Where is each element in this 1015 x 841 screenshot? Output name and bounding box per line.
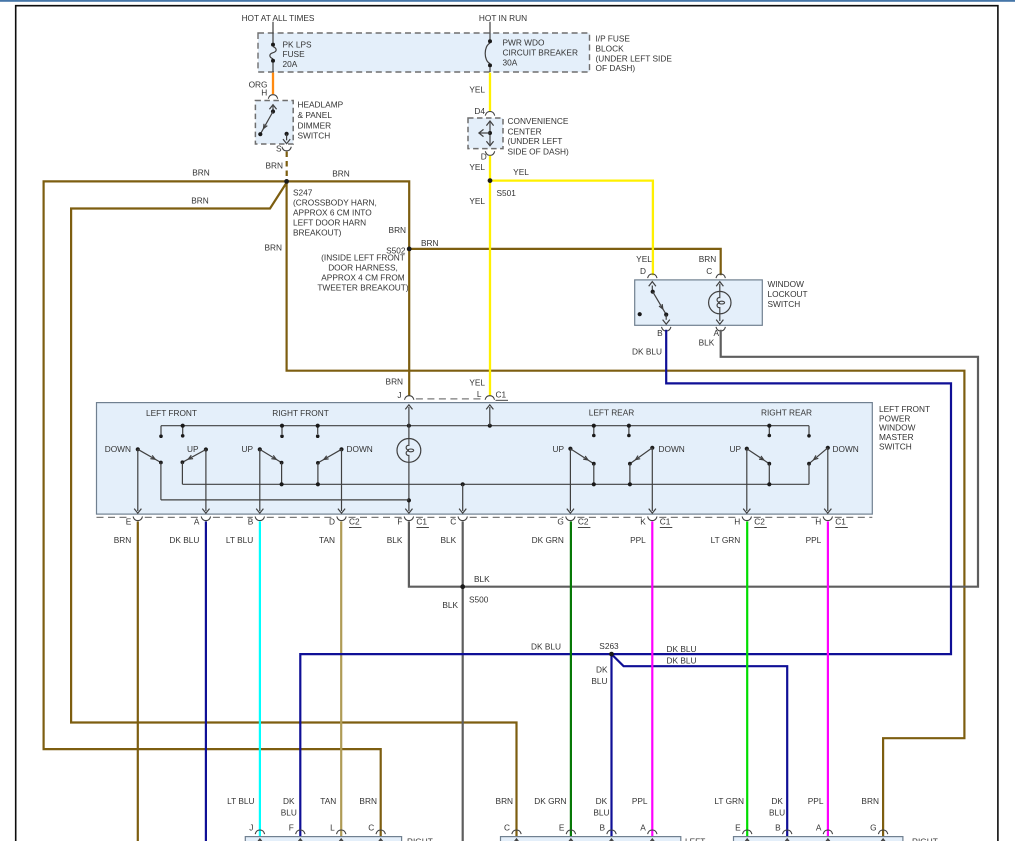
svg-text:BRN: BRN: [389, 225, 407, 235]
connector pin H arc: [268, 95, 277, 99]
connector pin D arc: [485, 151, 494, 155]
wire BRN S502 to master switch pin J: [408, 249, 410, 396]
svg-text:RIGHT FRONT: RIGHT FRONT: [272, 408, 329, 418]
headlamp switch contacts: [272, 106, 274, 112]
svg-text:H: H: [734, 517, 740, 527]
svg-text:DOOR HARNESS,: DOOR HARNESS,: [328, 263, 398, 273]
svg-text:L: L: [477, 389, 482, 399]
svg-text:K: K: [640, 517, 646, 527]
svg-text:B: B: [248, 517, 254, 527]
svg-text:UP: UP: [187, 444, 199, 454]
svg-text:D4: D4: [474, 106, 485, 116]
svg-text:HEADLAMP: HEADLAMP: [298, 100, 344, 110]
svg-text:S247: S247: [293, 187, 313, 197]
svg-text:YEL: YEL: [469, 196, 485, 206]
lockout switch contacts: [651, 286, 653, 292]
svg-text:PWR WDO: PWR WDO: [503, 38, 545, 48]
svg-text:B: B: [599, 823, 605, 833]
svg-text:C: C: [450, 517, 456, 527]
left rear DOWN switch: [650, 446, 654, 450]
wire DK BLU S263 to left rear door switch pin B: [610, 654, 612, 837]
connector dashed line below master switch: [97, 516, 131, 518]
svg-text:DOWN: DOWN: [347, 444, 373, 454]
svg-text:DK GRN: DK GRN: [534, 796, 566, 806]
svg-text:DK: DK: [771, 796, 783, 806]
wire BRN S502 to lockout switch pin C: [409, 249, 721, 275]
connector pin B arc: [662, 327, 671, 331]
wire DK BLU pin A to bottom: [205, 521, 207, 841]
svg-text:UP: UP: [241, 444, 253, 454]
svg-text:F: F: [397, 517, 402, 527]
left rear door window switch box: [501, 837, 681, 841]
svg-text:BLK: BLK: [441, 535, 457, 545]
svg-text:BLU: BLU: [281, 808, 297, 818]
svg-text:E: E: [126, 517, 132, 527]
wire TAN pin D to right front door switch pin L: [340, 521, 342, 836]
I/P fuse block box: [258, 33, 590, 72]
svg-text:BRN: BRN: [264, 243, 282, 253]
svg-text:S: S: [276, 143, 282, 153]
svg-text:C: C: [706, 266, 712, 276]
svg-text:DOWN: DOWN: [659, 444, 685, 454]
pin J arc: [405, 396, 414, 400]
svg-text:G: G: [557, 517, 563, 527]
svg-text:G: G: [870, 823, 876, 833]
svg-text:A: A: [713, 328, 719, 338]
master switch lamp: [408, 426, 410, 439]
lamp return bus: [160, 463, 162, 500]
svg-text:BRN: BRN: [421, 238, 439, 248]
svg-text:D: D: [329, 517, 335, 527]
svg-text:H: H: [815, 517, 821, 527]
svg-text:UP: UP: [729, 444, 741, 454]
svg-text:LEFT: LEFT: [685, 836, 705, 841]
svg-text:D: D: [481, 152, 487, 162]
svg-text:C1: C1: [416, 517, 427, 527]
svg-text:20A: 20A: [283, 59, 298, 69]
svg-text:DK: DK: [596, 796, 608, 806]
svg-text:BLK: BLK: [387, 535, 403, 545]
headlamp and panel dimmer switch box: [255, 101, 293, 145]
wire BRN S247 lower-left branch to left rear door switch pin C: [71, 183, 516, 837]
svg-text:BLK: BLK: [442, 600, 458, 610]
svg-text:PPL: PPL: [632, 796, 648, 806]
wire BLK lockout pin A to S500: [464, 330, 978, 587]
svg-text:CIRCUIT BREAKER: CIRCUIT BREAKER: [503, 48, 578, 58]
wire LT GRN pin H to right rear door switch pin E: [746, 521, 748, 836]
svg-text:DOWN: DOWN: [833, 444, 859, 454]
wire BRN S247 to S502: [287, 181, 410, 249]
connector pin S arc: [282, 147, 291, 151]
svg-text:BRN: BRN: [265, 160, 283, 170]
svg-text:PPL: PPL: [806, 535, 822, 545]
right front DOWN switch: [339, 447, 343, 451]
svg-text:TWEETER BREAKOUT): TWEETER BREAKOUT): [317, 283, 409, 293]
splice S502 dot: [407, 247, 412, 252]
svg-text:C: C: [504, 823, 510, 833]
svg-text:C1: C1: [496, 390, 507, 400]
wire stub to circuit breaker: [489, 22, 491, 33]
svg-text:BLU: BLU: [593, 808, 609, 818]
svg-text:YEL: YEL: [469, 162, 485, 172]
svg-text:LEFT FRONT: LEFT FRONT: [146, 408, 197, 418]
wire BRN pin E to bottom: [137, 521, 139, 841]
wire DK BLU lockout pin B to S263 to front door switch pin F: [300, 330, 951, 837]
svg-text:B: B: [775, 823, 781, 833]
svg-text:SWITCH: SWITCH: [879, 442, 912, 452]
svg-text:C2: C2: [754, 517, 765, 527]
svg-text:DIMMER: DIMMER: [298, 120, 332, 130]
svg-text:HOT AT ALL TIMES: HOT AT ALL TIMES: [242, 13, 315, 23]
svg-text:YEL: YEL: [636, 254, 652, 264]
svg-text:(UNDER LEFT: (UNDER LEFT: [508, 136, 563, 146]
svg-text:TAN: TAN: [319, 535, 335, 545]
convenience center internal: [489, 122, 491, 144]
right rear door window switch box: [734, 837, 903, 841]
connector pin C arc: [716, 274, 725, 278]
wire LT BLU pin B to right front door switch pin J: [259, 521, 261, 836]
svg-text:PPL: PPL: [630, 535, 646, 545]
pin C drop: [462, 484, 464, 511]
svg-text:F: F: [289, 823, 294, 833]
wire YEL convenience center to S501 and master switch pin L: [489, 156, 491, 396]
svg-text:DK BLU: DK BLU: [667, 656, 697, 666]
svg-text:BRN: BRN: [386, 376, 404, 386]
svg-text:BRN: BRN: [191, 196, 209, 206]
svg-text:30A: 30A: [503, 57, 518, 67]
splice S500: [460, 584, 465, 589]
pin J riser arrow: [408, 407, 410, 426]
svg-text:CENTER: CENTER: [508, 126, 542, 136]
svg-text:A: A: [640, 823, 646, 833]
svg-text:DK BLU: DK BLU: [531, 641, 561, 651]
svg-text:BRN: BRN: [332, 168, 350, 178]
svg-text:UP: UP: [552, 444, 564, 454]
svg-text:DOWN: DOWN: [105, 444, 131, 454]
fuse PK LPS 20A: [272, 33, 274, 43]
svg-text:DK GRN: DK GRN: [532, 535, 564, 545]
left rear UP switch: [568, 447, 572, 451]
lockout indicator lamp: [719, 284, 721, 292]
svg-text:H: H: [261, 88, 267, 98]
pin L riser arrow: [489, 407, 491, 426]
svg-text:FUSE: FUSE: [283, 49, 306, 59]
svg-text:APPROX 4 CM FROM: APPROX 4 CM FROM: [321, 273, 405, 283]
svg-text:DK: DK: [283, 796, 295, 806]
svg-text:BLK: BLK: [699, 338, 715, 348]
left front DOWN switch: [136, 447, 140, 451]
svg-text:YEL: YEL: [469, 377, 485, 387]
connector pin A arc: [716, 327, 725, 331]
svg-text:L: L: [330, 823, 335, 833]
svg-text:S500: S500: [469, 594, 489, 604]
svg-text:DK BLU: DK BLU: [632, 347, 662, 357]
svg-text:D: D: [640, 266, 646, 276]
svg-text:E: E: [559, 823, 565, 833]
wire BLK pin F to S500: [409, 521, 462, 586]
svg-text:S501: S501: [497, 188, 517, 198]
svg-text:A: A: [816, 823, 822, 833]
svg-text:I/P FUSE: I/P FUSE: [596, 34, 631, 44]
wire BLK pin C to S500 to ground: [462, 521, 464, 841]
feed contact stubs: [182, 426, 184, 434]
svg-text:RIGHT REAR: RIGHT REAR: [761, 408, 812, 418]
circuit breaker PWR WDO 30A: [489, 33, 491, 40]
svg-text:LT BLU: LT BLU: [226, 535, 253, 545]
convenience center box: [468, 118, 503, 149]
svg-text:LT GRN: LT GRN: [714, 796, 744, 806]
svg-text:BRN: BRN: [699, 254, 717, 264]
right rear DOWN switch: [826, 446, 830, 450]
svg-text:A: A: [194, 517, 200, 527]
svg-text:SWITCH: SWITCH: [298, 131, 331, 141]
svg-text:(CROSSBODY HARN,: (CROSSBODY HARN,: [293, 197, 377, 207]
svg-text:DK BLU: DK BLU: [667, 644, 697, 654]
window lockout switch box: [635, 280, 763, 325]
svg-text:BREAKOUT): BREAKOUT): [293, 227, 342, 237]
svg-text:BRN: BRN: [114, 535, 132, 545]
wire YEL S501 to lockout switch pin D: [490, 181, 653, 276]
svg-text:SWITCH: SWITCH: [768, 299, 801, 309]
svg-text:C: C: [368, 823, 374, 833]
wire ORG fuse to headlamp dimmer switch: [272, 73, 274, 95]
svg-text:B: B: [657, 328, 663, 338]
svg-text:BRN: BRN: [861, 796, 879, 806]
left front UP switch: [204, 447, 208, 451]
svg-text:LT BLU: LT BLU: [227, 796, 254, 806]
svg-text:WINDOW: WINDOW: [768, 279, 805, 289]
svg-text:SIDE OF DASH): SIDE OF DASH): [508, 147, 570, 157]
svg-text:RIGHT: RIGHT: [912, 836, 938, 841]
svg-text:BLK: BLK: [474, 574, 490, 584]
splice S263: [609, 652, 614, 657]
svg-text:(UNDER LEFT SIDE: (UNDER LEFT SIDE: [596, 53, 673, 63]
svg-text:C2: C2: [578, 517, 589, 527]
wire BRN S247 down branch to right rear door switch pin G: [287, 181, 965, 836]
svg-text:J: J: [249, 823, 253, 833]
svg-text:HOT IN RUN: HOT IN RUN: [479, 13, 527, 23]
svg-text:BLOCK: BLOCK: [596, 44, 625, 54]
right rear UP switch: [745, 447, 749, 451]
svg-text:BRN: BRN: [496, 796, 514, 806]
right front UP switch: [258, 447, 262, 451]
wire PPL pin H to right rear door switch pin A: [827, 521, 829, 836]
svg-text:C1: C1: [660, 517, 671, 527]
door switch internal arrows: [259, 840, 261, 841]
svg-text:(INSIDE LEFT FRONT: (INSIDE LEFT FRONT: [321, 253, 405, 263]
door switch connector arcs: [255, 830, 264, 834]
wire DK BLU S263 branch to right rear door switch pin B: [612, 654, 788, 837]
svg-text:C2: C2: [349, 517, 360, 527]
wire DK GRN pin G to left rear door switch pin E: [570, 521, 572, 836]
svg-text:RIGHT: RIGHT: [407, 836, 433, 841]
svg-text:LEFT DOOR HARN: LEFT DOOR HARN: [293, 217, 366, 227]
wire YEL breaker to convenience center: [489, 73, 491, 112]
wire BRN dashed from dimmer switch to S247: [286, 152, 288, 181]
svg-text:CONVENIENCE: CONVENIENCE: [508, 116, 569, 126]
splice S501: [488, 178, 493, 183]
right front door window switch box: [245, 837, 401, 841]
svg-text:BRN: BRN: [192, 168, 210, 178]
svg-text:APPROX 6 CM INTO: APPROX 6 CM INTO: [293, 207, 372, 217]
switch common bus lower: [182, 483, 809, 485]
wire PPL pin K to left rear door switch pin A: [651, 521, 653, 836]
svg-text:BLU: BLU: [591, 676, 607, 686]
left front power window master switch box: [97, 403, 873, 514]
wire BRN S247 left branch to right front door switch pin C: [44, 181, 381, 836]
svg-text:& PANEL: & PANEL: [298, 110, 333, 120]
svg-text:LT GRN: LT GRN: [711, 535, 741, 545]
master switch feed bus: [161, 425, 809, 427]
svg-text:J: J: [397, 390, 401, 400]
svg-text:C1: C1: [835, 517, 846, 527]
svg-text:LOCKOUT: LOCKOUT: [768, 289, 808, 299]
splice S247 dot: [284, 179, 289, 184]
connector pin D arc: [648, 274, 657, 278]
svg-text:DK BLU: DK BLU: [169, 535, 199, 545]
svg-text:E: E: [735, 823, 741, 833]
wire stub to fuse: [272, 22, 274, 33]
svg-text:TAN: TAN: [320, 796, 336, 806]
svg-text:PK LPS: PK LPS: [283, 39, 313, 49]
svg-text:YEL: YEL: [513, 167, 529, 177]
svg-text:OF DASH): OF DASH): [596, 63, 636, 73]
connector pin D4 arc: [485, 112, 494, 116]
connector C1 dashed line pins J L: [416, 398, 484, 400]
pin L arc: [485, 396, 494, 400]
svg-text:LEFT REAR: LEFT REAR: [589, 408, 635, 418]
svg-text:S263: S263: [599, 641, 619, 651]
svg-text:DK: DK: [596, 665, 608, 675]
svg-text:YEL: YEL: [469, 85, 485, 95]
svg-text:BRN: BRN: [359, 796, 377, 806]
svg-text:PPL: PPL: [808, 796, 824, 806]
svg-text:BLU: BLU: [769, 808, 785, 818]
